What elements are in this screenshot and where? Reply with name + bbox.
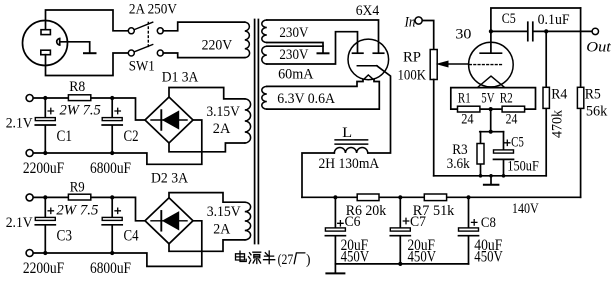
svg-text:R9: R9	[70, 179, 85, 195]
resistor R7 51k	[413, 194, 455, 219]
resistor R5 56k	[577, 87, 607, 120]
resistor R3 3.6k	[447, 132, 484, 176]
svg-text:2W 7.5: 2W 7.5	[60, 103, 102, 119]
terminal 2.1V row1 +	[26, 95, 33, 102]
wire RP bottom to cathode ground bus	[433, 80, 435, 176]
svg-text:2H 130mA: 2H 130mA	[319, 156, 380, 172]
transformer winding 3.15V 2A row1	[206, 99, 250, 143]
svg-text:24: 24	[506, 112, 518, 128]
capacitor C1 2200uF	[23, 98, 72, 177]
label 电源牛 (27厂)	[236, 251, 275, 264]
output terminal Out	[586, 28, 611, 55]
svg-text:220V: 220V	[202, 37, 233, 53]
resistor R9	[56, 179, 98, 218]
wire C5 to Out terminal	[534, 30, 593, 32]
filament loop R1 R2	[451, 88, 536, 128]
svg-text:24: 24	[461, 112, 474, 128]
junction dots row2	[43, 195, 114, 255]
mains plug P1	[23, 21, 68, 66]
svg-text:C1: C1	[57, 128, 73, 145]
potentiometer RP 100K	[398, 49, 469, 83]
svg-text:R5: R5	[585, 87, 601, 103]
svg-text:2W 7.5: 2W 7.5	[56, 203, 98, 219]
svg-text:30: 30	[455, 27, 471, 43]
bridge rectifier D1 3A	[145, 70, 198, 143]
wire 230V lower bottom edge to 6X4 left plate	[267, 32, 358, 64]
label SW1	[129, 58, 155, 74]
svg-text:2200uF: 2200uF	[23, 260, 65, 277]
input terminal In	[404, 14, 423, 30]
wire R4 bottom to ground bus	[504, 175, 547, 177]
svg-text:2A: 2A	[213, 221, 230, 237]
capacitor C8 40uF 450V	[459, 197, 504, 265]
terminal 2.1V row1 -	[26, 150, 33, 157]
svg-text:2A: 2A	[213, 121, 231, 137]
svg-text:L: L	[342, 125, 352, 141]
svg-text:150uF: 150uF	[507, 159, 539, 175]
terminal 2.1V row2 +	[26, 194, 33, 201]
capacitor C4 6800uF	[90, 197, 139, 277]
capacitor C7 20uF 450V	[390, 197, 436, 265]
fuse rating label 2A 250V	[129, 1, 177, 17]
bridge rectifier D2 3A	[145, 170, 193, 244]
svg-text:140V: 140V	[512, 201, 539, 217]
svg-text:2.1V: 2.1V	[6, 116, 33, 132]
svg-text:5V: 5V	[481, 91, 494, 107]
transformer secondary winding 230V (upper)	[262, 20, 309, 43]
switch SW1 gang link (dashed)	[147, 23, 149, 49]
svg-text:C3: C3	[57, 228, 73, 245]
resistor R4 470k	[543, 31, 568, 175]
svg-text:R2: R2	[500, 91, 513, 107]
wire plug top pin to switch pole 1	[46, 10, 129, 31]
label 140V	[512, 201, 539, 217]
capacitor C2 6800uF	[90, 98, 139, 177]
ground (cathode network)	[484, 176, 499, 185]
bottom rail row 2	[33, 221, 202, 267]
svg-text:): )	[306, 252, 311, 268]
svg-text:6800uF: 6800uF	[90, 160, 131, 177]
svg-text:C2: C2	[124, 128, 139, 145]
wire plug bottom pin to switch pole 2	[46, 53, 129, 76]
svg-text:C5: C5	[502, 11, 516, 27]
svg-text:0.1uF: 0.1uF	[538, 12, 570, 28]
wire 230V lower top edge to center tap	[267, 45, 323, 47]
svg-text:C5: C5	[511, 135, 524, 151]
svg-text:6800uF: 6800uF	[90, 260, 131, 277]
wire 230V upper top edge to 6X4 right plate	[267, 20, 379, 53]
wire D2 top to winding 3.15V row2	[169, 193, 245, 203]
svg-text:SW1: SW1	[129, 58, 155, 74]
transformer heater winding 6.3V 0.6A	[262, 86, 335, 109]
svg-text:3.6k: 3.6k	[447, 156, 471, 172]
svg-text:(27: (27	[278, 252, 294, 268]
wire winding 3.15V row1 bottom to D1 bottom	[169, 143, 245, 152]
B+ rail 140V	[302, 196, 581, 198]
choke L 2H 130mA	[319, 125, 380, 172]
wire D1 top to winding 3.15V row1	[169, 88, 245, 99]
svg-text:3.15V: 3.15V	[206, 104, 240, 120]
junction dots row1	[43, 96, 114, 155]
wire plug earth pin to ground	[61, 42, 90, 53]
svg-text:D1 3A: D1 3A	[162, 70, 199, 86]
wire B+ riser (through R5)	[580, 8, 582, 197]
wire switch pole 2 to primary bottom	[163, 53, 245, 58]
triode tube 30	[455, 27, 513, 88]
svg-text:Out: Out	[586, 39, 611, 55]
wire winding 3.15V row2 bottom to D2 bottom	[169, 240, 245, 251]
svg-text:R8: R8	[69, 79, 85, 95]
rectifier tube 6X4	[348, 3, 389, 80]
svg-text:3.15V: 3.15V	[207, 204, 241, 220]
ground rail under filter caps	[335, 263, 468, 265]
svg-text:100K: 100K	[398, 67, 427, 83]
svg-text:6.3V 0.6A: 6.3V 0.6A	[277, 91, 335, 107]
switch SW1 pole 1	[128, 22, 163, 34]
terminal 2.1V row2 -	[26, 250, 33, 257]
ground (HT center tap)	[318, 52, 329, 54]
svg-text:In: In	[404, 14, 416, 30]
transformer primary winding 220V	[202, 22, 250, 58]
wire plate to B+ top feed	[491, 8, 581, 53]
svg-text:RP: RP	[403, 49, 421, 65]
ground (filter)	[326, 264, 344, 274]
wire 6.3V bottom edge to 6X4 heater pin 2	[267, 80, 380, 110]
wire plate to coupling cap C5	[491, 30, 527, 32]
svg-text:60mA: 60mA	[278, 66, 313, 82]
wire choke output to B+ rail	[302, 153, 334, 197]
svg-text:450V: 450V	[474, 249, 503, 266]
svg-text:230V: 230V	[279, 47, 308, 63]
svg-text:2A 250V: 2A 250V	[129, 1, 177, 17]
capacitor C3 2200uF	[23, 197, 72, 277]
svg-text:470k: 470k	[550, 110, 566, 138]
ground (plug earth)	[84, 52, 96, 54]
junction dots right section	[479, 29, 549, 177]
svg-text:230V: 230V	[279, 25, 308, 41]
resistor R8	[60, 79, 102, 118]
svg-text:6X4: 6X4	[356, 3, 380, 19]
coupling capacitor C5 0.1uF	[502, 11, 570, 40]
junction dots B+ rail and ground rail	[333, 195, 470, 266]
ground bus (cathode network)	[434, 175, 504, 177]
svg-text:2200uF: 2200uF	[23, 160, 65, 177]
label 2.1V row2	[6, 215, 33, 231]
label 2.1V row1	[6, 116, 33, 132]
top rail row 1	[33, 98, 145, 120]
transformer winding 3.15V 2A row2	[207, 202, 251, 240]
svg-text:C7: C7	[410, 214, 426, 230]
svg-text:R1: R1	[458, 91, 471, 107]
svg-text:R4: R4	[551, 87, 568, 103]
wire 6.3V top edge to 6X4 heater pin 1	[267, 80, 363, 87]
svg-text:C4: C4	[124, 228, 139, 245]
top rail row 2	[33, 197, 145, 220]
resistor R6 20k	[346, 194, 387, 219]
transformer secondary winding 230V (lower)	[262, 46, 314, 82]
svg-text:D2 3A: D2 3A	[151, 170, 188, 186]
wire 230V upper bottom edge to center tap	[267, 43, 323, 53]
svg-text:56k: 56k	[586, 104, 608, 120]
switch SW1 pole 2	[128, 45, 163, 57]
wire In to RP	[422, 21, 433, 50]
wire switch pole 1 to primary top	[163, 22, 245, 31]
wire filament center tap down	[490, 109, 492, 132]
capacitor C6 20uF 450V	[325, 197, 369, 265]
wire cathode network top	[480, 131, 504, 133]
svg-text:C6: C6	[345, 214, 361, 230]
transformer core	[255, 20, 259, 244]
capacitor C5 150uF (cathode bypass)	[494, 132, 539, 176]
svg-text:C8: C8	[481, 215, 496, 231]
wire 6X4 cathode to choke	[368, 66, 391, 153]
svg-text:2.1V: 2.1V	[6, 215, 33, 231]
bottom rail row 1	[33, 120, 202, 164]
